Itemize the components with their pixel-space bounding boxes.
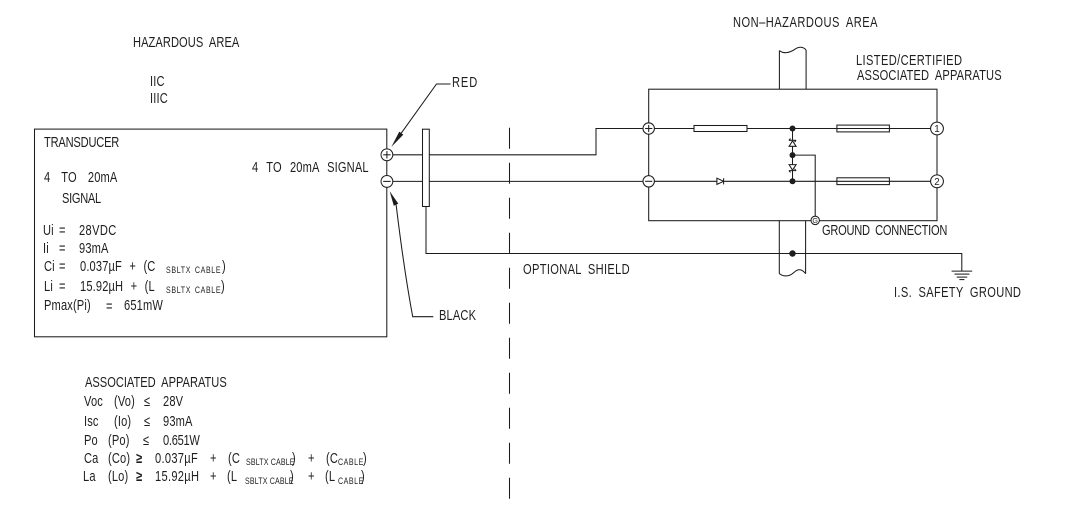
terminal 1: [931, 122, 944, 135]
wire + internal: [654, 128, 694, 130]
label RED: [452, 76, 478, 91]
hazardous/non-hazardous dashed boundary: [509, 128, 511, 506]
label 4 TO 20mA: [44, 171, 117, 186]
zener diode Z2: [789, 155, 796, 181]
label 4 TO 20mA SIGNAL: [252, 161, 369, 176]
label Isc equation: [84, 415, 99, 430]
node junction between zeners: [790, 152, 796, 158]
label Ci equation: [44, 260, 55, 275]
terminal + (transducer): [381, 149, 393, 161]
terminal 2: [931, 175, 944, 188]
label ASSOCIATED APPARATUS (top): [857, 69, 1002, 84]
associated apparatus box: [649, 89, 937, 221]
shield/ground wire: [426, 207, 962, 272]
label SIGNAL: [62, 192, 101, 207]
label LISTED/CERTIFIED: [856, 54, 962, 69]
label IIIC: [150, 92, 168, 107]
label Li equation: [44, 280, 53, 295]
wire - internal to terminal 2: [724, 180, 931, 182]
leader arrow RED: [391, 84, 450, 147]
fuse F1: [837, 125, 890, 132]
node junction shield wire in conduit: [789, 250, 795, 256]
label Ca equation: [84, 452, 98, 467]
terminal - (transducer): [381, 176, 393, 188]
label TRANSDUCER: [44, 136, 119, 151]
label IIC: [150, 75, 165, 90]
label I.S. SAFETY GROUND: [894, 286, 1021, 301]
node junction on - rail: [790, 178, 796, 184]
svg-text:2: 2: [934, 177, 939, 188]
resistor R1: [694, 126, 747, 132]
wire - signal (transducer to barrier): [393, 180, 643, 182]
label Voc equation: [84, 395, 103, 410]
label Ii = 93mA: [43, 242, 49, 257]
label HAZARDOUS AREA: [133, 36, 239, 51]
label La equation: [83, 470, 96, 485]
terminal + (barrier input): [643, 123, 654, 134]
label ASSOCIATED APPARATUS (bottom): [85, 376, 227, 391]
wire zener mid-point to ground terminal G: [793, 155, 816, 217]
label Po equation: [84, 434, 98, 449]
zener diode Z1: [789, 129, 796, 156]
terminal - (barrier input): [643, 176, 654, 187]
ground terminal G: [811, 216, 819, 225]
fuse F2: [837, 178, 890, 185]
diode D1: [717, 178, 724, 184]
leader arrow BLACK: [390, 191, 434, 317]
wire + signal (transducer to barrier, with jog up): [393, 129, 643, 155]
I.S. safety ground symbol: [952, 271, 973, 280]
label Ui = 28VDC: [43, 224, 54, 239]
wire + internal to terminal 1: [747, 128, 931, 130]
node junction on + rail: [790, 126, 796, 132]
label GROUND CONNECTION: [822, 224, 947, 239]
label NON-HAZARDOUS AREA: [733, 16, 878, 31]
transducer box: [35, 129, 387, 337]
optional shield bar: [423, 129, 430, 206]
svg-text:G: G: [812, 216, 818, 225]
svg-text:1: 1: [934, 124, 939, 135]
bottom conduit (broken pipe): [779, 221, 805, 276]
wire - internal: [654, 180, 717, 182]
label BLACK: [439, 309, 476, 324]
top conduit (broken pipe): [779, 47, 806, 89]
label OPTIONAL SHIELD: [523, 263, 630, 278]
label Pmax equation: [44, 299, 91, 314]
